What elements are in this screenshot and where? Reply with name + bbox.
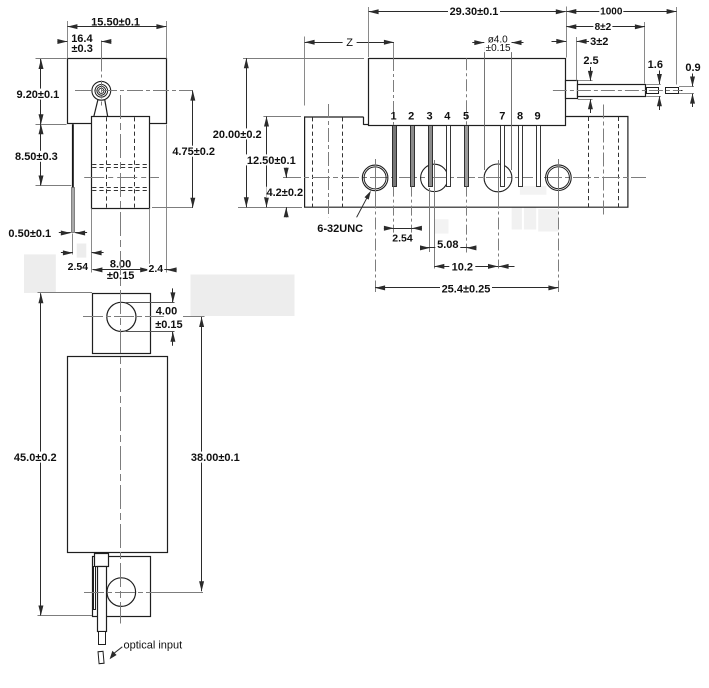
dim 9.20 <box>40 59 42 124</box>
svg-text:2.54: 2.54 <box>392 232 413 244</box>
svg-text:5.08: 5.08 <box>437 239 458 251</box>
hole B <box>421 164 448 191</box>
svg-text:2.5: 2.5 <box>583 55 598 67</box>
dim 25.4 <box>375 287 558 289</box>
pin1 centerline <box>393 43 395 60</box>
svg-text:±0.3: ±0.3 <box>72 43 93 55</box>
main horizontal centerline <box>283 177 646 179</box>
Z extension line (base left edge extended up) <box>304 37 306 106</box>
pigtail extension lines <box>566 7 568 58</box>
dim 4.00 top tab hole <box>126 302 175 304</box>
watermark cluster D <box>512 207 522 229</box>
snout side plate <box>94 567 96 610</box>
svg-text:10.2: 10.2 <box>452 261 473 273</box>
horizontal centerline left view <box>75 90 193 92</box>
dim 5.08 <box>430 247 466 249</box>
package body side view outline <box>68 59 167 124</box>
base hidden groove lines right <box>588 117 590 207</box>
svg-text:5: 5 <box>463 111 469 123</box>
base hidden groove lines left <box>312 117 314 207</box>
ferrule cone <box>94 99 98 116</box>
bottom hole centerline <box>84 592 163 594</box>
svg-text:9: 9 <box>534 111 540 123</box>
pin extensions below <box>393 187 395 233</box>
svg-text:8±2: 8±2 <box>595 22 612 33</box>
dim 1000 <box>566 11 676 13</box>
svg-text:8: 8 <box>517 111 523 123</box>
dim 2.54 right view <box>394 228 412 230</box>
svg-text:38.00±0.1: 38.00±0.1 <box>191 452 240 464</box>
dim 38.00 <box>201 317 203 591</box>
pigtail loose tube <box>578 85 646 97</box>
bottom view bottom tab <box>93 557 151 617</box>
dim 45.0 <box>38 292 93 294</box>
leader 6-32UNC <box>357 196 368 218</box>
dim 8.00 and 2.4 <box>92 269 176 271</box>
pigtail centerline <box>553 90 681 92</box>
svg-text:0.9: 0.9 <box>685 62 700 74</box>
dim Z <box>305 42 394 44</box>
dim 4.75 <box>192 91 194 208</box>
snout collar <box>95 554 109 567</box>
hole center extensions <box>375 197 377 293</box>
svg-text:±0.15: ±0.15 <box>155 319 182 331</box>
pigtail boot <box>566 81 578 99</box>
svg-text:2.4: 2.4 <box>148 263 163 275</box>
dim 20.00 <box>243 58 364 60</box>
fiber stub <box>678 90 683 92</box>
svg-text:7: 7 <box>499 111 505 123</box>
pins <box>393 126 397 187</box>
pin5 centerline <box>466 58 468 125</box>
svg-text:±0.15: ±0.15 <box>486 43 511 54</box>
svg-text:0.50±0.1: 0.50±0.1 <box>8 228 51 240</box>
groove centerlines <box>328 104 330 217</box>
dim 10.2 <box>434 266 498 268</box>
flange (nose block) <box>92 117 150 209</box>
pigtail segment 2 <box>666 88 679 94</box>
dim 0.50 <box>61 231 71 236</box>
svg-text:3±2: 3±2 <box>590 36 608 48</box>
mounting hole A (6-32UNC) <box>362 165 388 191</box>
svg-text:15.50±0.1: 15.50±0.1 <box>91 16 140 28</box>
svg-text:9.20±0.1: 9.20±0.1 <box>17 89 60 101</box>
bottom view top tab <box>93 294 151 354</box>
top hole centerline <box>83 316 164 318</box>
dim 8+-2 <box>566 26 645 28</box>
flange screw-hole centerline <box>84 177 159 179</box>
svg-text:4: 4 <box>444 111 451 123</box>
dim 12.50 <box>263 116 301 118</box>
fiber gray tube <box>72 188 75 233</box>
svg-text:Z: Z <box>346 37 353 49</box>
hole C <box>484 164 512 192</box>
ferrule vertical centerline <box>101 41 103 60</box>
watermark box C <box>191 275 295 317</box>
pin 3 center extension <box>429 188 431 252</box>
svg-text:4.2±0.2: 4.2±0.2 <box>266 187 303 199</box>
dim 16.4 <box>57 39 67 44</box>
svg-text:6-32UNC: 6-32UNC <box>317 223 363 235</box>
hole D <box>546 165 572 191</box>
svg-text:2: 2 <box>408 111 414 123</box>
svg-text:45.0±0.2: 45.0±0.2 <box>14 452 57 464</box>
dim dia 4.0 <box>474 40 484 45</box>
svg-text:29.30±0.1: 29.30±0.1 <box>450 6 499 18</box>
base bottom extension for 20.00/12.50 <box>238 207 302 209</box>
svg-text:1: 1 <box>390 111 396 123</box>
dim 15.50 <box>67 26 166 28</box>
snout tube <box>98 567 107 632</box>
base plate outline <box>305 117 628 208</box>
bottom view body <box>68 357 168 553</box>
svg-text:4.00: 4.00 <box>156 306 177 318</box>
ferrule circles <box>92 81 111 100</box>
svg-text:optical input: optical input <box>124 640 183 652</box>
snout lower segment <box>99 632 106 645</box>
dim 4.2 <box>286 168 288 178</box>
fiber tip piece <box>98 651 104 663</box>
svg-text:3: 3 <box>427 111 433 123</box>
svg-text:1000: 1000 <box>600 6 623 17</box>
dim 29.30 <box>368 7 370 57</box>
dim 8.50 <box>40 124 42 185</box>
flange hidden lines <box>106 117 108 207</box>
bottom tab hole <box>107 578 136 607</box>
svg-text:1.6: 1.6 <box>648 59 663 71</box>
svg-text:25.4±0.25: 25.4±0.25 <box>442 283 491 295</box>
vertical centerline shared top-left and bottom view <box>120 95 122 624</box>
dim 3+-2 <box>556 39 566 44</box>
extension lines left view <box>67 21 69 59</box>
svg-text:2.54: 2.54 <box>68 261 89 273</box>
svg-text:4.75±0.2: 4.75±0.2 <box>172 146 215 158</box>
body (lid) outline <box>369 59 566 126</box>
svg-text:20.00±0.2: 20.00±0.2 <box>213 129 262 141</box>
watermark box A <box>24 254 56 293</box>
fiber exit black <box>72 124 74 187</box>
watermark box B <box>77 244 87 258</box>
top tab hole <box>107 302 136 331</box>
hole C tangent lines <box>484 47 486 170</box>
svg-text:8.50±0.3: 8.50±0.3 <box>15 151 58 163</box>
pigtail segment 1 <box>647 88 659 94</box>
dim 2.54 left view <box>63 250 73 255</box>
svg-text:12.50±0.1: 12.50±0.1 <box>247 155 296 167</box>
